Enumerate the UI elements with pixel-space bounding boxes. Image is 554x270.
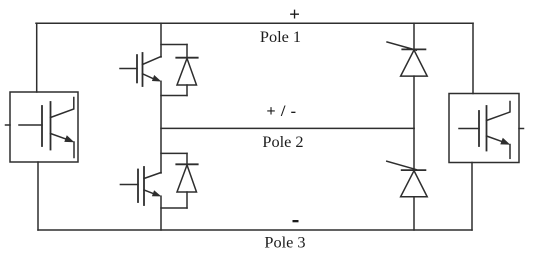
svg-text:+: + [289,4,300,25]
svg-text:Pole 1: Pole 1 [260,27,301,46]
svg-text:+ / -: + / - [266,101,296,120]
svg-text:Pole 2: Pole 2 [262,132,303,151]
svg-text:Pole 3: Pole 3 [264,233,305,252]
